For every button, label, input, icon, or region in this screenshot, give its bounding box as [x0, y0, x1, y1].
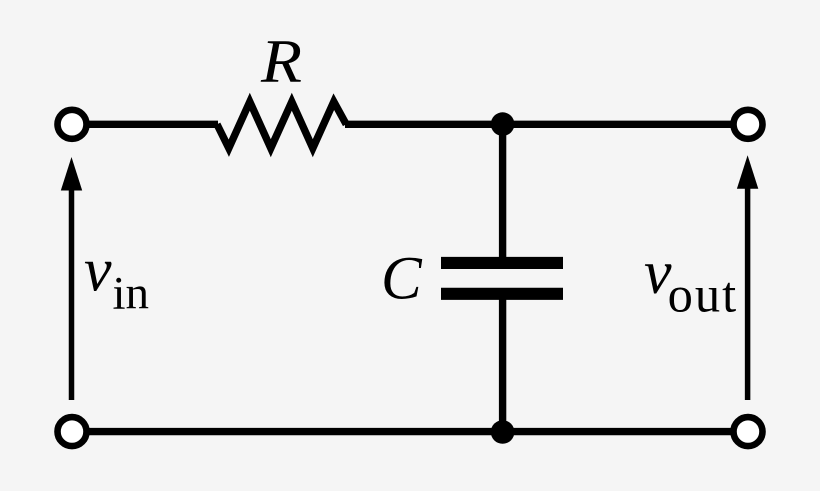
capacitor C bottom plate [441, 288, 563, 300]
wire: top-left from input terminal to resistor [72, 121, 218, 128]
arrow v_in head [61, 157, 82, 191]
node: bottom junction dot [491, 420, 515, 444]
node: top junction dot [491, 112, 515, 136]
svg-text:R: R [260, 29, 302, 96]
capacitor C top plate [441, 257, 563, 269]
wire: bottom from input terminal to output terminal [72, 428, 748, 435]
svg-text:v: v [84, 237, 112, 305]
arrow v_out shaft [745, 186, 751, 400]
wire: top from resistor to output terminal [345, 121, 748, 128]
svg-text:in: in [113, 267, 150, 319]
terminal: input bottom (open circle) [58, 417, 87, 446]
terminal: input top (open circle) [58, 110, 87, 139]
svg-text:C: C [381, 245, 423, 312]
terminal: output top (open circle) [734, 110, 763, 139]
arrow v_in shaft [69, 188, 75, 400]
wire: capacitor branch upper segment [499, 124, 506, 262]
terminal: output bottom (open circle) [734, 417, 763, 446]
resistor R (zigzag) [217, 102, 346, 149]
svg-text:out: out [668, 267, 739, 323]
wire: capacitor branch lower segment [499, 295, 506, 432]
arrow v_out head [737, 155, 758, 189]
